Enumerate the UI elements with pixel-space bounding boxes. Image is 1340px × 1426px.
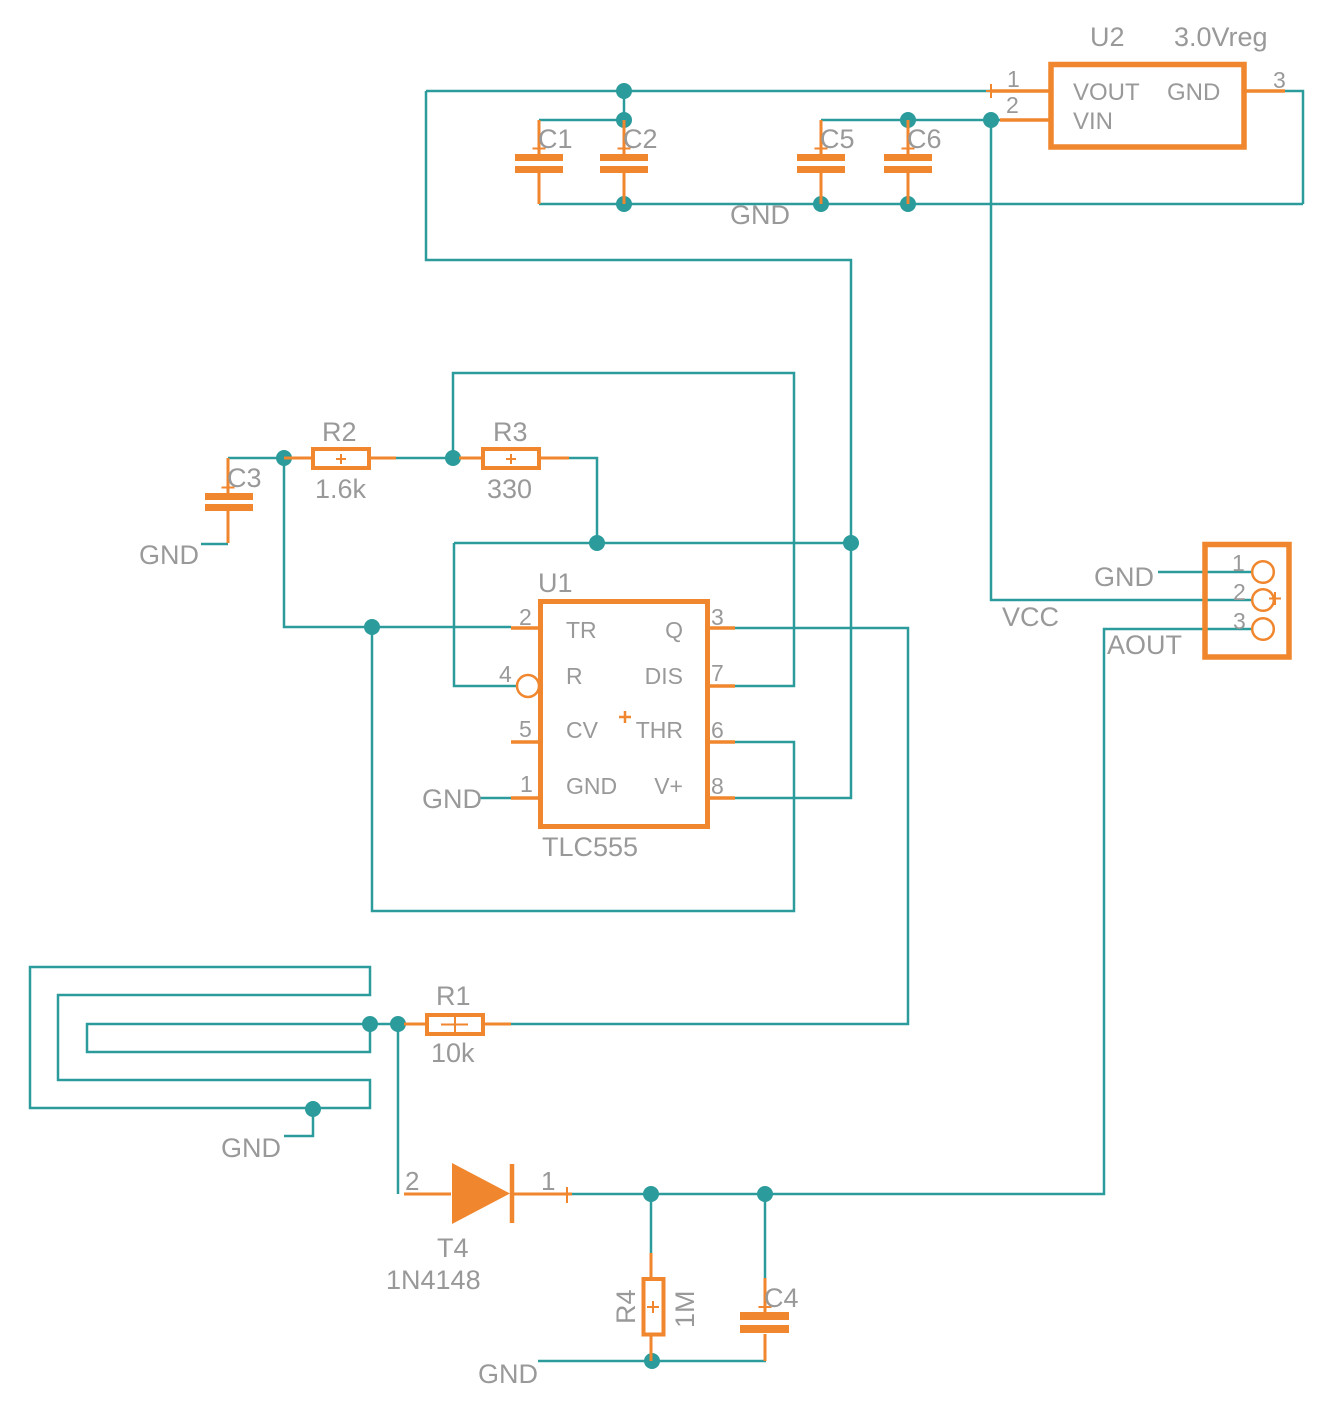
svg-text:1.6k: 1.6k <box>315 474 367 504</box>
svg-text:GND: GND <box>221 1133 281 1163</box>
svg-text:VIN: VIN <box>1073 108 1113 135</box>
svg-text:TR: TR <box>566 617 597 643</box>
svg-text:THR: THR <box>636 717 683 743</box>
svg-text:1: 1 <box>1007 66 1020 92</box>
svg-text:GND: GND <box>1094 562 1154 592</box>
svg-text:GND: GND <box>730 200 790 230</box>
svg-text:T4: T4 <box>437 1233 469 1263</box>
svg-text:1: 1 <box>520 771 533 797</box>
svg-text:DIS: DIS <box>645 663 683 689</box>
svg-text:C6: C6 <box>907 124 942 154</box>
svg-text:1M: 1M <box>670 1290 700 1328</box>
svg-text:3: 3 <box>1273 67 1286 93</box>
svg-text:8: 8 <box>711 773 724 799</box>
svg-text:7: 7 <box>711 660 724 686</box>
svg-text:C2: C2 <box>623 124 658 154</box>
svg-text:4: 4 <box>499 661 512 687</box>
svg-text:3: 3 <box>1233 608 1246 634</box>
svg-text:6: 6 <box>711 717 724 743</box>
svg-text:1: 1 <box>1232 550 1245 576</box>
svg-text:R4: R4 <box>611 1289 641 1324</box>
svg-text:CV: CV <box>566 717 599 743</box>
svg-text:U1: U1 <box>538 568 573 598</box>
svg-text:C3: C3 <box>227 463 262 493</box>
svg-text:GND: GND <box>1167 79 1220 106</box>
svg-text:Q: Q <box>665 617 683 643</box>
svg-text:GND: GND <box>139 540 199 570</box>
svg-text:C5: C5 <box>820 124 855 154</box>
svg-text:3.0Vreg: 3.0Vreg <box>1174 22 1268 52</box>
svg-text:GND: GND <box>566 773 617 799</box>
svg-text:330: 330 <box>487 474 532 504</box>
svg-text:3: 3 <box>711 604 724 630</box>
svg-text:R1: R1 <box>436 981 471 1011</box>
svg-text:2: 2 <box>519 604 532 630</box>
svg-text:R3: R3 <box>493 417 528 447</box>
svg-text:U2: U2 <box>1090 22 1125 52</box>
svg-text:R2: R2 <box>322 417 357 447</box>
svg-text:GND: GND <box>478 1359 538 1389</box>
svg-text:5: 5 <box>519 716 532 742</box>
svg-text:C1: C1 <box>538 124 573 154</box>
svg-text:GND: GND <box>422 784 482 814</box>
svg-text:VOUT: VOUT <box>1073 79 1140 106</box>
svg-text:1: 1 <box>541 1166 555 1196</box>
svg-text:2: 2 <box>1233 579 1246 605</box>
svg-text:2: 2 <box>1006 92 1019 118</box>
svg-text:2: 2 <box>405 1166 419 1196</box>
svg-text:VCC: VCC <box>1002 602 1059 632</box>
svg-text:AOUT: AOUT <box>1107 630 1182 660</box>
svg-text:1N4148: 1N4148 <box>386 1265 481 1295</box>
svg-text:R: R <box>566 663 583 689</box>
svg-text:10k: 10k <box>431 1038 475 1068</box>
svg-text:TLC555: TLC555 <box>542 832 638 862</box>
svg-text:V+: V+ <box>654 773 683 799</box>
svg-text:C4: C4 <box>764 1283 799 1313</box>
